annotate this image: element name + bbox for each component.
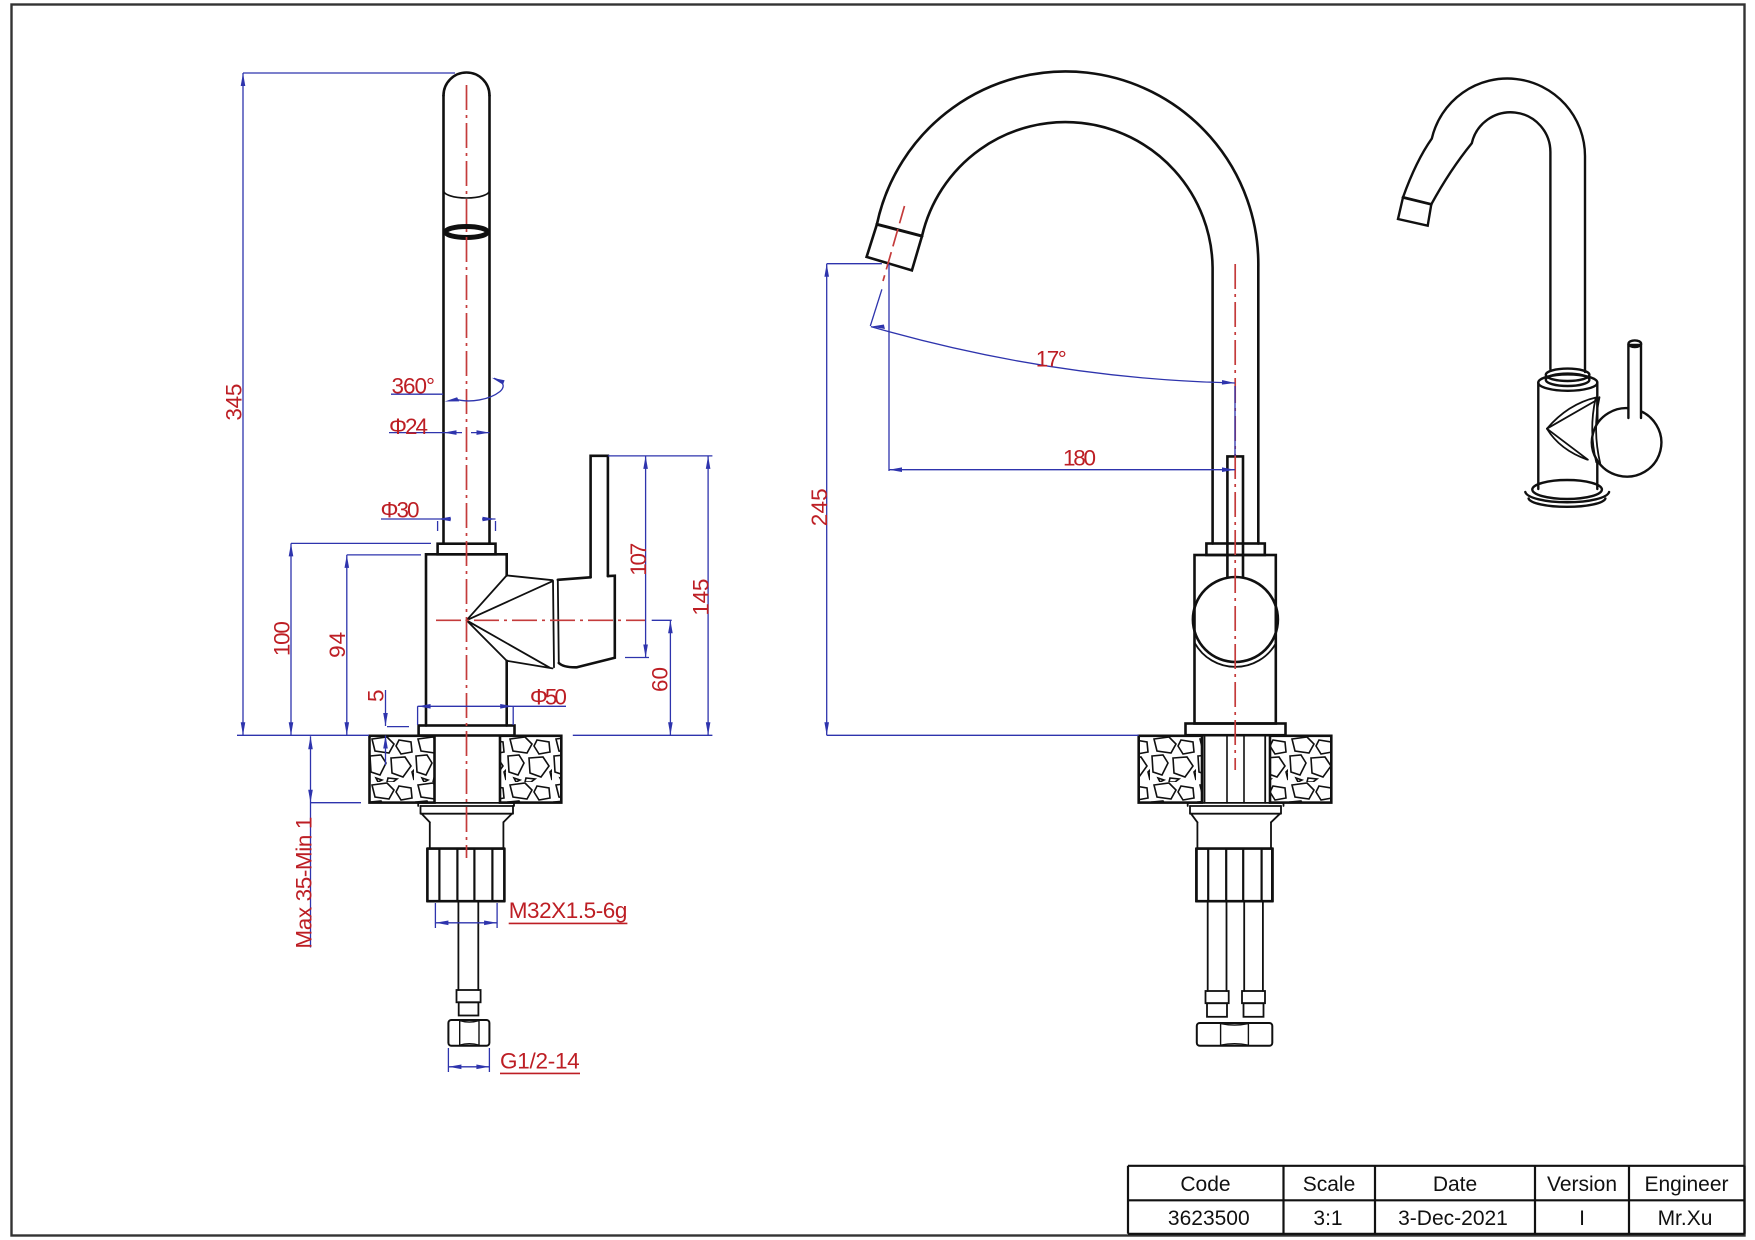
middle centerline vertical [883, 206, 1235, 770]
svg-text:Mr.Xu: Mr.Xu [1658, 1207, 1713, 1230]
arrow phi30 right [483, 517, 496, 522]
svg-text:360°: 360° [392, 374, 436, 399]
collar [1206, 544, 1264, 556]
small rod [1628, 345, 1641, 418]
spout pipe right edge [488, 96, 491, 544]
arrow phi30 left [438, 517, 451, 522]
arrow phi24 left [444, 430, 457, 435]
counter hatch left [370, 736, 435, 803]
small collar ring [1546, 369, 1590, 381]
flange phi30 [438, 544, 496, 555]
svg-text:Version: Version [1547, 1173, 1617, 1196]
tip joint line [877, 224, 922, 236]
arrow M32 left [435, 921, 448, 926]
arrow 100 top [289, 543, 294, 556]
svg-text:Max 35-Min 1: Max 35-Min 1 [292, 817, 317, 949]
svg-text:60: 60 [648, 667, 673, 692]
svg-text:5: 5 [364, 689, 389, 702]
svg-text:245: 245 [807, 488, 832, 526]
mounting nut [1197, 849, 1273, 902]
svg-text:3623500: 3623500 [1168, 1207, 1250, 1230]
arrow 245 bottom [824, 722, 829, 735]
arrow 5 lower [383, 736, 388, 749]
arrow 17deg left [871, 325, 885, 330]
tip centerline [883, 206, 905, 281]
arrow max35 top [308, 736, 313, 749]
G1/2 hex nut [448, 1020, 489, 1046]
left view centerlines [436, 85, 645, 858]
handle rod [591, 456, 608, 578]
small tip joint [1403, 197, 1431, 204]
dim phi50 [418, 706, 566, 725]
arrow 145 bottom [706, 722, 711, 735]
spout cap arc [444, 73, 490, 96]
arrow 345 bottom [241, 722, 246, 735]
dim G1/2 [448, 1048, 489, 1072]
small body bottom rim [1532, 480, 1602, 499]
washer plate [1188, 803, 1284, 806]
gooseneck inner [922, 122, 1213, 543]
arrow 360 arc end [492, 378, 505, 385]
centerline vertical [466, 85, 468, 858]
bottom ext 145/60 [573, 734, 713, 736]
hex nuts [1197, 1023, 1273, 1046]
svg-text:3:1: 3:1 [1313, 1207, 1342, 1230]
nut ribs [427, 849, 504, 902]
dim phi24 [389, 432, 490, 434]
dim 180 [889, 469, 1235, 471]
spout joint arc [444, 191, 490, 199]
arrow 107 bottom [643, 645, 648, 658]
svg-text:Date: Date [1433, 1173, 1477, 1196]
gooseneck outer [877, 71, 1258, 543]
svg-text:M32X1.5-6g: M32X1.5-6g [509, 898, 628, 923]
ball lower arc [1195, 643, 1276, 667]
arrow 60 bottom [668, 722, 673, 735]
centerline horizontal [436, 619, 645, 621]
arrow 360 leader [445, 397, 460, 401]
aerator ring [446, 227, 488, 238]
dim M32 [435, 903, 497, 928]
small boss back arcs [1592, 397, 1600, 463]
small body top ellipse [1538, 374, 1597, 390]
arrow phi50 left [418, 704, 431, 709]
arrow 94 top [345, 555, 350, 568]
supply hoses [1208, 901, 1263, 991]
top ext 107/145 [608, 455, 712, 457]
360 rotation arc [455, 378, 503, 401]
svg-text:Code: Code [1180, 1173, 1230, 1196]
hatch right [1270, 736, 1331, 803]
hose collar lower [459, 1002, 479, 1015]
arrow M32 right [484, 921, 497, 926]
base flange [419, 726, 515, 736]
arrow G12 left [448, 1065, 461, 1070]
svg-text:Scale: Scale [1303, 1173, 1356, 1196]
outlet ext vertical [888, 264, 890, 471]
dim 100 line [291, 543, 431, 735]
arrow 245 top [824, 264, 829, 277]
ball circle [1193, 577, 1278, 662]
small boss cap [1585, 401, 1669, 484]
svg-text:Φ30: Φ30 [381, 498, 420, 523]
counter ext [827, 734, 1139, 736]
handle rod front [1227, 456, 1243, 577]
counter hatch right [500, 736, 561, 803]
small cone wedge [1547, 401, 1596, 460]
cone wedge upper [467, 575, 553, 620]
small body sides [1538, 383, 1597, 489]
arrow 94 bottom [345, 722, 350, 735]
hoses in shank [1227, 736, 1244, 803]
svg-text:I: I [1579, 1207, 1585, 1230]
body [426, 554, 507, 725]
supply tube [458, 901, 478, 990]
small base dish [1525, 492, 1609, 502]
arrow 60 top [668, 620, 673, 633]
dim 5 [386, 690, 410, 765]
svg-text:145: 145 [689, 579, 714, 616]
washer band [1190, 806, 1281, 814]
mounting nut [427, 849, 504, 902]
arrow 100 bottom [289, 722, 294, 735]
dim 94 line [347, 555, 421, 735]
tilted ext [870, 289, 882, 326]
arrow 107 top [643, 456, 648, 469]
centerline ext [1234, 386, 1236, 456]
svg-text:345: 345 [222, 384, 247, 421]
small tip cap [1398, 197, 1431, 225]
arrow 180 right [1222, 467, 1235, 472]
washer plate [418, 803, 514, 806]
svg-text:107: 107 [626, 543, 651, 576]
cone wedge lower [467, 620, 553, 668]
svg-text:17°: 17° [1036, 346, 1067, 371]
small gooseneck outer [1403, 79, 1585, 372]
arrow 345 top [241, 73, 246, 86]
360 leader [391, 393, 443, 395]
shank through counter [1205, 736, 1266, 803]
base flange [1186, 724, 1286, 736]
17 deg arc [871, 327, 1235, 383]
arrow phi24 right [477, 430, 490, 435]
arrow max35 bottom [308, 790, 313, 803]
washer band [421, 806, 514, 814]
shank [430, 822, 504, 848]
dim 345 line [243, 73, 455, 735]
dim phi30 [381, 519, 496, 531]
ring joint [553, 580, 559, 667]
body [1195, 555, 1276, 724]
svg-text:G1/2-14: G1/2-14 [500, 1049, 580, 1074]
dim 60 [652, 620, 672, 735]
left view arrows [241, 73, 711, 1069]
taper [1191, 814, 1280, 823]
shank [1197, 822, 1271, 848]
hose collar [457, 990, 481, 1002]
handle connector [558, 576, 615, 668]
spout tip cap [867, 224, 922, 270]
svg-text:94: 94 [325, 632, 350, 658]
arrow 180 left [889, 467, 902, 472]
arrow 17deg right [1222, 380, 1235, 385]
hose collars [1206, 991, 1229, 1003]
taper [422, 814, 512, 823]
dim 107 [625, 456, 649, 658]
svg-text:3-Dec-2021: 3-Dec-2021 [1398, 1207, 1508, 1230]
arrow 5 upper [383, 713, 388, 726]
svg-text:180: 180 [1063, 446, 1096, 471]
spout pipe left edge [442, 96, 445, 544]
svg-text:Engineer: Engineer [1644, 1173, 1728, 1196]
arrow phi50 right [500, 704, 513, 709]
small gooseneck inner [1431, 112, 1550, 369]
arrow 145 top [706, 456, 711, 469]
counter top ext line [237, 734, 369, 736]
dim 245 [827, 264, 882, 736]
svg-text:100: 100 [269, 621, 294, 656]
svg-text:Φ50: Φ50 [530, 685, 567, 710]
left view red texts [222, 374, 714, 1074]
dim 145 [707, 456, 709, 735]
hatch left [1139, 736, 1202, 803]
arrow G12 right [476, 1065, 489, 1070]
svg-text:Φ24: Φ24 [389, 414, 428, 439]
small rod cap [1629, 340, 1642, 347]
dim max35 [311, 736, 362, 947]
nut ribs [1196, 849, 1273, 902]
